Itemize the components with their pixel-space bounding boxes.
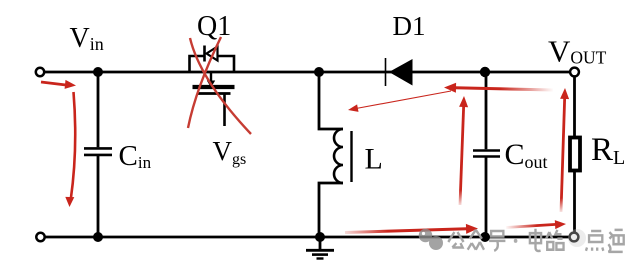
inductor L coil <box>334 129 343 183</box>
cross-out stroke 2 over Q1 <box>188 37 221 128</box>
current arrow input right <box>41 80 76 89</box>
node junction L top <box>314 67 324 77</box>
current arrow up through RL <box>560 88 569 212</box>
watermark text 公众号·电路(blur)点通 <box>448 229 623 252</box>
terminal input - <box>36 233 44 241</box>
svg-text:Cin: Cin <box>119 140 152 172</box>
cross-out stroke 1 over Q1 <box>190 38 251 134</box>
terminal output + <box>570 68 579 77</box>
ground <box>306 237 334 259</box>
node junction Cout bottom <box>480 232 490 242</box>
current arrow bottom left-to-right 1 <box>345 224 478 234</box>
terminal output - <box>570 233 579 242</box>
wire L branch <box>319 72 343 237</box>
diode D1 cathode bar <box>385 58 387 86</box>
wire RL branch <box>573 76 576 233</box>
svg-text:Q1: Q1 <box>197 11 231 42</box>
terminal input + <box>36 68 44 76</box>
current arrow bottom left-to-right 2 <box>506 220 566 229</box>
resistor RL body <box>570 138 580 171</box>
current arrow top toward D1 <box>444 83 553 93</box>
svg-text:Vin: Vin <box>70 23 104 54</box>
watermark blur spot <box>568 229 586 247</box>
wire Cin branch <box>97 72 100 237</box>
wire bottom rail <box>45 236 571 239</box>
watermark logo icon <box>419 229 443 250</box>
node junction Cout top <box>480 67 490 77</box>
node junction Cin bottom <box>93 232 103 242</box>
current arrow diagonal to L <box>348 91 451 112</box>
node junction Vin-Cin top <box>93 67 103 77</box>
inductor L core bar <box>350 131 352 182</box>
svg-text:Cout: Cout <box>505 138 548 172</box>
capacitor C_out plates <box>473 151 500 157</box>
svg-text:D1: D1 <box>393 11 426 41</box>
capacitor C_in plates <box>84 148 112 155</box>
svg-text:VOUT: VOUT <box>548 34 607 69</box>
svg-text:L: L <box>365 143 383 176</box>
transistor Q1 <box>190 46 235 127</box>
current arrow up through Cout <box>459 96 468 205</box>
diode D1 triangle <box>389 59 413 86</box>
svg-text:Vgs: Vgs <box>213 136 247 168</box>
svg-text:RL: RL <box>591 132 625 169</box>
node junction ground <box>315 232 325 242</box>
wire Cout branch <box>485 72 488 237</box>
current arrow input down <box>65 92 75 207</box>
wire top rail <box>44 71 570 74</box>
